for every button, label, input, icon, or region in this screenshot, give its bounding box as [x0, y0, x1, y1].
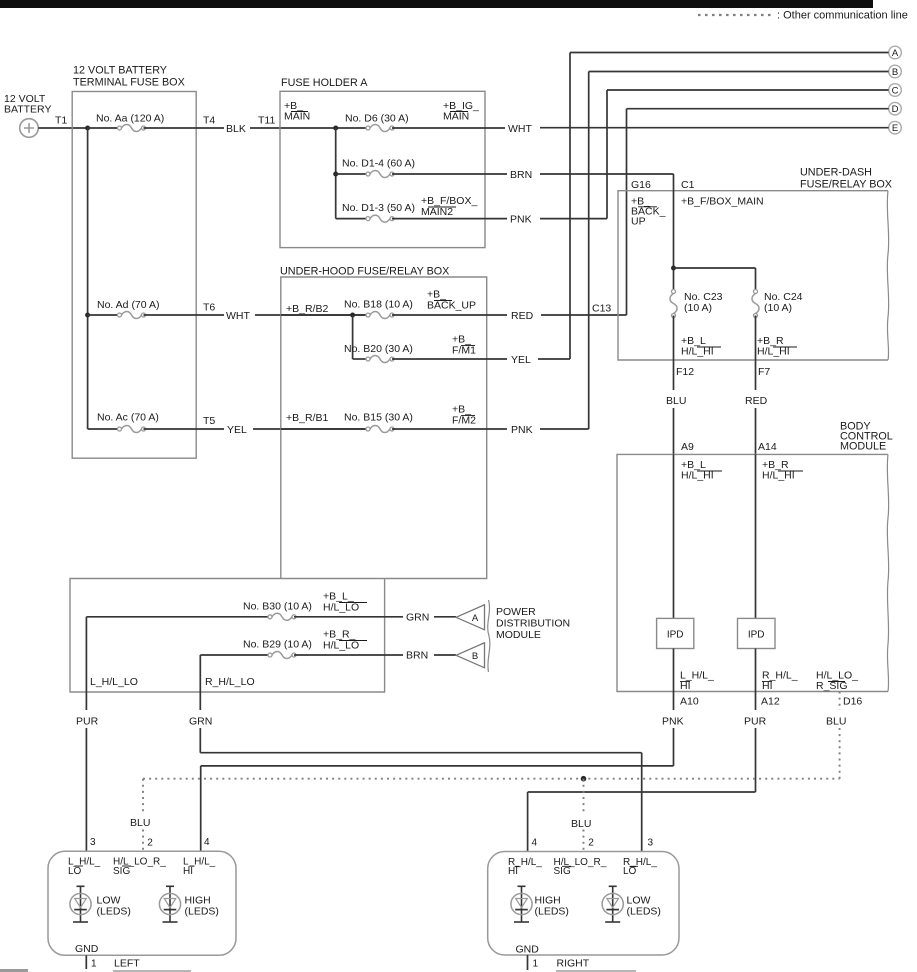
- fuse D1-3: [366, 215, 394, 222]
- wire F7 to A14: [755, 408, 757, 454]
- net label L_H/L_HI: [680, 670, 714, 693]
- pin label +B_F/BOX_MAIN2: [421, 195, 477, 218]
- wire label BLK: [226, 123, 246, 135]
- fuse B15 label: [344, 412, 413, 424]
- wire WHT to under-hood box: [255, 314, 368, 316]
- svg-text:C1: C1: [681, 179, 695, 191]
- LED low beam left: [70, 886, 91, 922]
- wire label WHT: [226, 310, 250, 322]
- svg-text:BLU: BLU: [666, 395, 686, 407]
- wire GRN to module A: [434, 616, 456, 618]
- wire fuse D1-4 out (BRN): [392, 173, 507, 175]
- wire riser A (YEL): [569, 53, 571, 360]
- fuse C23: [670, 290, 677, 318]
- svg-text:No. B15 (30 A): No. B15 (30 A): [344, 412, 413, 424]
- battery symbol: [20, 119, 39, 138]
- pin label F7: [758, 366, 770, 378]
- svg-text:BRN: BRN: [510, 169, 532, 181]
- wire BRN to C1: [540, 173, 674, 175]
- svg-text:T4: T4: [203, 115, 215, 127]
- svg-text:No. Ad (70 A): No. Ad (70 A): [97, 299, 159, 311]
- pin label R_H/L_HI: [508, 857, 542, 877]
- svg-text:(LEDS): (LEDS): [185, 906, 219, 918]
- fuse B30: [268, 613, 296, 620]
- svg-text:L_H/L_LO: L_H/L_LO: [90, 676, 138, 688]
- wire fuse B15 out (PNK): [392, 428, 507, 430]
- label HIGH (LEDS): [185, 895, 219, 918]
- pin number 2: [147, 838, 153, 849]
- svg-text:T11: T11: [258, 115, 275, 127]
- wire PNK down: [673, 728, 675, 766]
- pin label +B_R/B1: [286, 412, 328, 424]
- wire PUR left down: [85, 617, 87, 852]
- svg-text:MODULE: MODULE: [840, 441, 886, 453]
- svg-text:BACK_UP: BACK_UP: [427, 300, 476, 312]
- svg-text:3: 3: [648, 838, 654, 849]
- pin number 3: [90, 837, 96, 848]
- label LOW (LEDS): [627, 895, 661, 918]
- svg-text:F12: F12: [676, 366, 694, 378]
- wire label BRN: [510, 169, 532, 181]
- wire riser B (PNK): [588, 72, 590, 430]
- svg-text:UP: UP: [631, 216, 646, 228]
- svg-text:3: 3: [90, 837, 96, 848]
- svg-text:1: 1: [91, 959, 97, 970]
- svg-text:YEL: YEL: [511, 354, 531, 366]
- wire label YEL: [227, 424, 247, 436]
- wire YEL to riser A: [538, 358, 570, 360]
- fuse D6 label: [345, 113, 409, 125]
- fuse B18: [366, 311, 394, 318]
- node junction B18: [350, 313, 355, 318]
- wire label BLU: [826, 716, 846, 728]
- svg-text:E: E: [892, 123, 898, 134]
- box title: [800, 167, 892, 191]
- svg-text:12 VOLT BATTERY: 12 VOLT BATTERY: [73, 65, 167, 77]
- svg-text:PUR: PUR: [744, 716, 767, 728]
- LED low beam right: [602, 886, 623, 922]
- wire to C: [607, 89, 889, 91]
- pin label +B_BACK_UP: [427, 289, 476, 312]
- wire YEL to under-hood box: [253, 428, 368, 430]
- svg-text:H/L_LO: H/L_LO: [323, 640, 359, 652]
- terminal label T11: [258, 115, 275, 127]
- net label +B_L H/L_HI: [681, 335, 721, 358]
- wire label PNK: [662, 716, 684, 728]
- svg-text:(LEDS): (LEDS): [97, 906, 131, 918]
- wire label BRN: [406, 650, 428, 662]
- wire label WHT: [508, 123, 532, 135]
- svg-text:HI: HI: [183, 866, 193, 877]
- node junction D1-4: [333, 172, 338, 177]
- wire pin to fuse B18: [281, 314, 368, 316]
- svg-text:No. D1-4 (60 A): No. D1-4 (60 A): [342, 158, 415, 170]
- pin label +B_F/M1: [452, 334, 476, 357]
- wire fuse B18 out (RED): [392, 314, 507, 316]
- wire left to fuse B30: [86, 616, 270, 618]
- box title: [73, 65, 185, 89]
- fuse Ad: [118, 311, 146, 318]
- svg-text:LEFT: LEFT: [114, 958, 140, 970]
- pin label A14: [758, 441, 777, 453]
- svg-text:BLU: BLU: [130, 817, 150, 829]
- svg-text:No. D1-3 (50 A): No. D1-3 (50 A): [342, 202, 415, 214]
- svg-text:(10 A): (10 A): [764, 302, 792, 314]
- pin label D16: [843, 696, 862, 708]
- net label +B_BACK_UP: [631, 196, 666, 228]
- svg-text:BATTERY: BATTERY: [4, 104, 51, 116]
- svg-text:No. Aa (120 A): No. Aa (120 A): [96, 113, 164, 125]
- wire PNK to riser B: [540, 428, 589, 430]
- svg-text:RED: RED: [745, 395, 768, 407]
- communication line D16 drop: [839, 692, 841, 779]
- wire F12 to A9: [673, 408, 675, 454]
- wire A9 to IPD: [673, 454, 675, 618]
- wire PUR to right pin 4: [527, 792, 529, 852]
- svg-text:2: 2: [588, 838, 594, 849]
- svg-text:BLK: BLK: [226, 123, 246, 135]
- svg-text:FUSE HOLDER A: FUSE HOLDER A: [281, 77, 368, 89]
- svg-text:No. B20 (30 A): No. B20 (30 A): [344, 343, 413, 355]
- wire label RED: [511, 310, 534, 322]
- pin label R_H/L_LO: [623, 857, 657, 877]
- svg-text:+B_R/B1: +B_R/B1: [286, 412, 328, 424]
- fuse B30 label: [243, 601, 312, 613]
- legend text: [777, 10, 908, 22]
- wire BRN to module B: [434, 654, 456, 656]
- pin number 1: [91, 959, 97, 970]
- pin label A10: [680, 696, 699, 708]
- wire label PNK: [511, 424, 533, 436]
- wire A14 to IPD: [755, 454, 757, 618]
- cut-off mark: [113, 970, 191, 972]
- svg-text:No. B30 (10 A): No. B30 (10 A): [243, 601, 312, 613]
- wire to fuse Ad: [88, 314, 120, 316]
- label HIGH (LEDS): [535, 895, 569, 918]
- wire GRN down: [199, 655, 201, 753]
- svg-text:H/L_HI: H/L_HI: [762, 470, 795, 482]
- net label +B_F/BOX_MAIN: [681, 196, 764, 208]
- wire fuse Ac to T5: [144, 428, 225, 430]
- module connector triangle A: [456, 605, 485, 630]
- fuse C24: [752, 290, 759, 318]
- fuse B18 label: [344, 299, 413, 311]
- svg-text:GND: GND: [75, 943, 99, 955]
- svg-text:T1: T1: [55, 115, 67, 127]
- wire PNK horizontal: [201, 765, 674, 767]
- svg-text:MAIN2: MAIN2: [421, 206, 453, 218]
- pin label C1: [681, 179, 695, 191]
- node junction T1 bus: [85, 126, 90, 131]
- wire F12 down: [673, 316, 675, 391]
- wire riser C (PNK): [606, 90, 608, 219]
- wire F7 down: [755, 316, 757, 391]
- wire RED to under-dash C13: [541, 314, 627, 316]
- svg-text:F7: F7: [758, 366, 770, 378]
- power distribution module label: [496, 606, 570, 641]
- module connector triangle B: [456, 643, 485, 668]
- wire label BLU: [130, 817, 150, 829]
- svg-text:GRN: GRN: [406, 612, 429, 624]
- wire fuse B29 out (BRN): [294, 654, 403, 656]
- svg-text:MAIN: MAIN: [284, 111, 310, 123]
- wire pin 1: [85, 955, 87, 969]
- node junction comm: [581, 776, 587, 782]
- svg-text:BRN: BRN: [406, 650, 428, 662]
- svg-text:No. B18 (10 A): No. B18 (10 A): [344, 299, 413, 311]
- svg-text:PNK: PNK: [511, 424, 533, 436]
- connector circle C: [889, 84, 902, 97]
- pin label A9: [681, 441, 694, 453]
- net label H/L_LO_R_SIG: [816, 670, 858, 693]
- fuse Aa label: [96, 113, 164, 125]
- svg-text:PUR: PUR: [76, 716, 99, 728]
- wire PUR down: [755, 728, 757, 792]
- net label +B_R H/L_HI: [762, 459, 803, 482]
- svg-text:B: B: [892, 67, 898, 78]
- wire label PUR: [76, 716, 99, 728]
- fuse Ad label: [97, 299, 159, 311]
- communication line to left pin 2: [142, 779, 144, 852]
- svg-text:4: 4: [532, 837, 538, 848]
- net label R_H/L_HI: [762, 670, 798, 693]
- pin label L_H/L_LO: [68, 857, 101, 877]
- label LEFT: [114, 958, 140, 970]
- pin label +B_F/M2: [452, 404, 476, 427]
- svg-text:YEL: YEL: [227, 424, 247, 436]
- svg-text:GND: GND: [516, 944, 540, 956]
- pin label +B_IG_MAIN: [443, 100, 479, 123]
- fuse B29: [268, 651, 296, 658]
- terminal label T5: [203, 415, 215, 427]
- cut-off mark: [556, 970, 636, 972]
- fuse C24 label: [764, 291, 803, 314]
- pin label L_H/L_HI: [183, 857, 216, 877]
- svg-text:R_H/L_LO: R_H/L_LO: [205, 676, 255, 688]
- svg-text:SIG: SIG: [554, 866, 571, 877]
- fuse Ac label: [97, 412, 159, 424]
- connector circle E: [889, 121, 902, 134]
- wire riser D (RED): [626, 109, 628, 315]
- svg-text:A: A: [472, 613, 479, 624]
- wire label RED: [745, 395, 768, 407]
- box title: [840, 421, 893, 453]
- wire to B: [589, 71, 889, 73]
- wire to fuse B20: [353, 358, 368, 360]
- pin label G16: [631, 179, 651, 191]
- legend: other communication line sample: [698, 14, 773, 16]
- pin label H/L_LO_R_SIG: [113, 857, 166, 877]
- svg-text:LO: LO: [68, 866, 82, 877]
- svg-text:RIGHT: RIGHT: [557, 958, 590, 970]
- svg-text:+B_F/BOX_MAIN: +B_F/BOX_MAIN: [681, 196, 764, 208]
- svg-text:WHT: WHT: [226, 310, 250, 322]
- svg-text:H/L_HI: H/L_HI: [681, 470, 714, 482]
- communication line horizontal: [143, 778, 840, 780]
- wire label BLU: [571, 818, 591, 830]
- svg-text:No. B29 (10 A): No. B29 (10 A): [243, 639, 312, 651]
- pin number 2: [588, 838, 594, 849]
- IPD block left: [657, 618, 694, 648]
- wire GRN to right pin 3: [641, 753, 643, 852]
- terminal label T6: [203, 302, 215, 314]
- fuse D1-3 label: [342, 202, 415, 214]
- svg-text:IPD: IPD: [748, 630, 765, 641]
- svg-text:1: 1: [533, 959, 539, 970]
- cut-off mark: [0, 969, 28, 972]
- fuse D1-4: [366, 170, 394, 177]
- label GND: [75, 943, 99, 955]
- pin label C13: [592, 303, 611, 315]
- fuse C23 label: [684, 291, 723, 314]
- svg-text:(10 A): (10 A): [684, 302, 712, 314]
- svg-text:WHT: WHT: [508, 123, 532, 135]
- svg-text:PNK: PNK: [510, 213, 532, 225]
- communication line to right pin 2: [583, 779, 585, 852]
- wire label PNK: [510, 213, 532, 225]
- svg-text:UNDER-DASH: UNDER-DASH: [800, 167, 872, 179]
- svg-text:BLU: BLU: [571, 818, 591, 830]
- fuse D1-4 label: [342, 158, 415, 170]
- LED high beam right: [511, 886, 532, 922]
- svg-text:F/M2: F/M2: [452, 415, 476, 427]
- wire to fuse Aa: [88, 127, 120, 129]
- pin label R_H/L_LO: [205, 676, 255, 688]
- wire left to fuse B29: [200, 654, 270, 656]
- wire label BLU: [666, 395, 686, 407]
- wire to fuse Ac: [88, 428, 120, 430]
- node junction C23/C24: [671, 266, 676, 271]
- svg-text:+B_R/B2: +B_R/B2: [286, 303, 328, 315]
- pin label H/L_LO_R_SIG: [554, 857, 607, 877]
- svg-text:C: C: [892, 85, 899, 96]
- svg-text:HI: HI: [508, 866, 518, 877]
- fuse Aa: [118, 124, 146, 131]
- pin label A12: [761, 696, 780, 708]
- wire fuse Aa to T4: [144, 127, 225, 129]
- fuse B15: [366, 425, 394, 432]
- wire IPD to A12: [755, 649, 757, 711]
- net label +B_L H/L_HI: [681, 459, 722, 482]
- svg-text:MODULE: MODULE: [496, 629, 541, 641]
- wire fuse D1-3 out (PNK): [392, 218, 507, 220]
- wire bus vertical: [87, 128, 89, 429]
- fuse B20: [366, 355, 394, 362]
- wire to fuse D1-3: [336, 218, 368, 220]
- fuse B29 label: [243, 639, 312, 651]
- node junction D6: [333, 126, 338, 131]
- wire bus vertical: [335, 128, 337, 219]
- label LOW (LEDS): [97, 895, 131, 918]
- pin label +B_L_H/L_LO: [323, 591, 367, 614]
- connector circle B: [889, 65, 902, 78]
- svg-text:No. D6 (30 A): No. D6 (30 A): [345, 113, 409, 125]
- svg-text:G16: G16: [631, 179, 651, 191]
- wire PNK to riser C: [540, 218, 607, 220]
- wire label YEL: [511, 354, 531, 366]
- connector circle D: [889, 102, 902, 115]
- fuse B20 label: [344, 343, 413, 355]
- svg-text:4: 4: [204, 837, 210, 848]
- pin label +B_MAIN: [284, 100, 310, 123]
- 12 volt battery terminal fuse box: [72, 92, 196, 459]
- box title: [281, 77, 368, 89]
- body control module box: [617, 454, 889, 691]
- svg-text:RED: RED: [511, 310, 534, 322]
- node junction Ad: [85, 313, 90, 318]
- wire to D: [627, 108, 889, 110]
- svg-text:GRN: GRN: [189, 716, 212, 728]
- svg-text:T6: T6: [203, 302, 215, 314]
- wire BLK to fuse holder: [250, 127, 368, 129]
- svg-text:A: A: [892, 48, 899, 59]
- pin number 3: [648, 838, 654, 849]
- svg-text:A14: A14: [758, 441, 777, 453]
- svg-text:FUSE/RELAY BOX: FUSE/RELAY BOX: [800, 179, 892, 191]
- svg-text:BLU: BLU: [826, 716, 846, 728]
- pin label L_H/L_LO: [90, 676, 138, 688]
- label RIGHT: [557, 958, 590, 970]
- svg-text:A10: A10: [680, 696, 699, 708]
- svg-text:MAIN: MAIN: [443, 111, 469, 123]
- svg-text:D16: D16: [843, 696, 862, 708]
- svg-text:C13: C13: [592, 303, 611, 315]
- left headlight box: [48, 851, 236, 955]
- under-dash fuse/relay box: [618, 191, 889, 360]
- overline marks: [75, 865, 195, 867]
- svg-text:LO: LO: [623, 866, 637, 877]
- terminal label T1: [55, 115, 67, 127]
- svg-text:No. Ac (70 A): No. Ac (70 A): [97, 412, 159, 424]
- wire fuse B20 out (YEL): [392, 358, 507, 360]
- wire label PUR: [744, 716, 767, 728]
- svg-text:TERMINAL FUSE BOX: TERMINAL FUSE BOX: [73, 77, 185, 89]
- wire PNK to left pin 4: [200, 766, 202, 851]
- pin label F12: [676, 366, 694, 378]
- wire GRN horizontal: [200, 752, 641, 754]
- module torn edge: [488, 600, 490, 672]
- wire junction to C24: [674, 267, 756, 269]
- box title: [280, 266, 449, 278]
- IPD block right: [738, 618, 776, 648]
- wire IPD to A10: [673, 649, 675, 711]
- svg-text:(LEDS): (LEDS): [535, 906, 569, 918]
- wire C1 riser: [673, 174, 675, 292]
- overline marks: [515, 865, 639, 867]
- svg-text:2: 2: [147, 838, 153, 849]
- wire pin to fuse B15: [281, 428, 368, 430]
- wire to fuse D1-4: [336, 173, 368, 175]
- 12 volt battery label: [4, 93, 51, 116]
- svg-text:F/M1: F/M1: [452, 345, 476, 357]
- fuse D6: [366, 124, 394, 131]
- wire C24 drop: [755, 268, 757, 292]
- svg-text:(LEDS): (LEDS): [627, 906, 661, 918]
- svg-text:DISTRIBUTION: DISTRIBUTION: [496, 618, 570, 630]
- svg-text:T5: T5: [203, 415, 215, 427]
- svg-text:IPD: IPD: [667, 630, 684, 641]
- svg-text:A12: A12: [761, 696, 780, 708]
- pin number 4: [532, 837, 538, 848]
- wire WHT to E: [540, 127, 889, 129]
- pin label +B_R_H/L_LO: [323, 629, 367, 652]
- pin number 1: [533, 959, 539, 970]
- svg-text:POWER: POWER: [496, 606, 536, 618]
- wire fuse D6 out: [392, 127, 505, 129]
- fuse holder A box: [280, 91, 485, 247]
- LED high beam left: [159, 886, 180, 922]
- svg-text:D: D: [892, 104, 899, 115]
